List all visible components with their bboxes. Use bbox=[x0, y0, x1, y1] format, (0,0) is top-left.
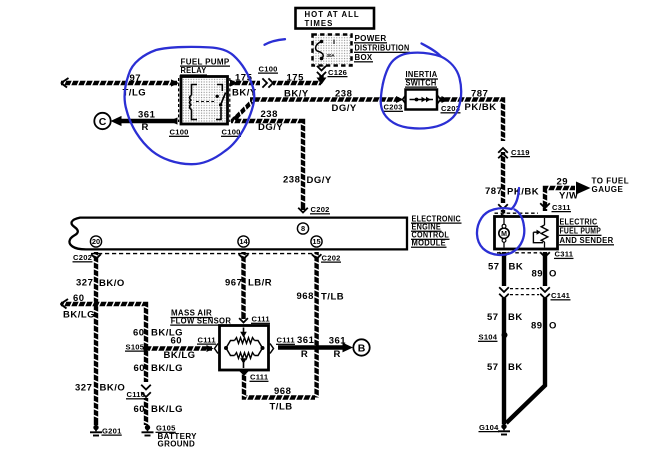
svg-text:89: 89 bbox=[532, 269, 544, 280]
svg-text:968: 968 bbox=[274, 386, 291, 397]
svg-text:DG/Y: DG/Y bbox=[332, 103, 357, 114]
svg-text:327: 327 bbox=[76, 278, 93, 289]
svg-text:PK/BK: PK/BK bbox=[507, 186, 539, 197]
svg-text:BK/LG: BK/LG bbox=[63, 310, 95, 321]
svg-text:968: 968 bbox=[297, 291, 314, 302]
svg-text:T/LB: T/LB bbox=[270, 402, 293, 413]
svg-text:787: 787 bbox=[471, 89, 488, 100]
svg-text:30A: 30A bbox=[327, 53, 336, 58]
svg-text:BK/O: BK/O bbox=[100, 383, 126, 394]
svg-text:C100: C100 bbox=[170, 128, 189, 137]
svg-text:C100: C100 bbox=[222, 128, 241, 137]
svg-text:327: 327 bbox=[75, 383, 92, 394]
svg-text:238: 238 bbox=[283, 175, 300, 186]
svg-text:S105: S105 bbox=[126, 342, 145, 351]
svg-text:FUEL PUMP: FUEL PUMP bbox=[560, 227, 602, 236]
svg-text:361: 361 bbox=[329, 335, 347, 346]
svg-text:C202: C202 bbox=[311, 205, 330, 214]
svg-text:C126: C126 bbox=[328, 68, 347, 77]
svg-text:TIMES: TIMES bbox=[305, 19, 334, 28]
svg-text:G104: G104 bbox=[479, 423, 499, 432]
svg-text:C311: C311 bbox=[555, 250, 574, 259]
svg-text:C: C bbox=[99, 116, 107, 128]
svg-text:BK/LG: BK/LG bbox=[151, 404, 183, 415]
svg-text:R: R bbox=[301, 349, 308, 360]
svg-text:C202: C202 bbox=[322, 253, 341, 262]
svg-text:C111: C111 bbox=[252, 315, 271, 324]
svg-text:G201: G201 bbox=[102, 426, 122, 435]
svg-text:C119: C119 bbox=[511, 148, 530, 157]
svg-text:BK: BK bbox=[508, 312, 523, 323]
svg-text:20: 20 bbox=[92, 237, 100, 246]
svg-text:ELECTRIC: ELECTRIC bbox=[560, 218, 598, 227]
svg-text:C111: C111 bbox=[198, 335, 217, 344]
svg-text:C203: C203 bbox=[384, 103, 403, 112]
svg-text:DISTRIBUTION: DISTRIBUTION bbox=[355, 44, 410, 53]
svg-text:O: O bbox=[549, 269, 557, 280]
svg-text:SWITCH: SWITCH bbox=[406, 78, 437, 87]
svg-text:R: R bbox=[142, 122, 149, 133]
svg-text:S104: S104 bbox=[479, 333, 498, 342]
svg-text:C100: C100 bbox=[259, 64, 278, 73]
svg-text:BK: BK bbox=[509, 262, 524, 273]
svg-text:361: 361 bbox=[297, 335, 315, 346]
svg-text:175: 175 bbox=[287, 73, 305, 84]
svg-text:BK/LG: BK/LG bbox=[164, 350, 196, 361]
svg-text:787: 787 bbox=[485, 186, 502, 197]
svg-text:GROUND: GROUND bbox=[158, 440, 196, 449]
svg-text:AND SENDER: AND SENDER bbox=[560, 236, 614, 245]
svg-text:60: 60 bbox=[171, 336, 183, 347]
svg-text:60: 60 bbox=[134, 404, 146, 415]
svg-text:57: 57 bbox=[487, 312, 499, 323]
svg-text:POWER: POWER bbox=[355, 34, 387, 43]
svg-text:238: 238 bbox=[261, 109, 278, 120]
svg-text:BOX: BOX bbox=[355, 53, 374, 62]
svg-text:C202: C202 bbox=[73, 253, 92, 262]
svg-text:BK/Y: BK/Y bbox=[284, 89, 309, 100]
svg-text:BK/LG: BK/LG bbox=[151, 363, 183, 374]
svg-text:C111: C111 bbox=[277, 336, 296, 345]
svg-text:361: 361 bbox=[138, 110, 156, 121]
svg-text:60: 60 bbox=[134, 363, 146, 374]
svg-text:GAUGE: GAUGE bbox=[592, 185, 624, 194]
svg-text:RELAY: RELAY bbox=[181, 66, 207, 75]
svg-text:89: 89 bbox=[531, 321, 543, 332]
svg-text:97: 97 bbox=[130, 73, 142, 84]
svg-text:29: 29 bbox=[557, 177, 569, 188]
svg-text:FLOW SENSOR: FLOW SENSOR bbox=[171, 316, 232, 325]
svg-text:Y/W: Y/W bbox=[559, 191, 578, 202]
svg-text:8: 8 bbox=[301, 224, 305, 233]
svg-text:967: 967 bbox=[225, 278, 242, 289]
svg-text:R: R bbox=[334, 349, 341, 360]
svg-text:HOT AT ALL: HOT AT ALL bbox=[305, 10, 360, 19]
svg-text:LB/R: LB/R bbox=[248, 278, 272, 289]
svg-text:PK/BK: PK/BK bbox=[465, 102, 497, 113]
svg-text:DG/Y: DG/Y bbox=[258, 122, 283, 133]
svg-text:57: 57 bbox=[487, 362, 499, 373]
svg-text:FUEL PUMP: FUEL PUMP bbox=[181, 57, 230, 66]
svg-text:57: 57 bbox=[488, 262, 500, 273]
svg-text:238: 238 bbox=[335, 88, 352, 99]
svg-text:60: 60 bbox=[73, 293, 85, 304]
svg-text:M: M bbox=[501, 231, 507, 238]
svg-text:C111: C111 bbox=[250, 373, 269, 382]
svg-text:B: B bbox=[358, 342, 366, 354]
svg-text:60: 60 bbox=[133, 327, 145, 338]
svg-text:MODULE: MODULE bbox=[412, 238, 447, 247]
svg-text:BK: BK bbox=[508, 362, 523, 373]
svg-text:T/LB: T/LB bbox=[321, 291, 344, 302]
svg-text:C141: C141 bbox=[551, 291, 571, 300]
svg-text:15: 15 bbox=[312, 237, 320, 246]
svg-text:C110: C110 bbox=[127, 390, 146, 399]
svg-text:C311: C311 bbox=[552, 203, 571, 212]
svg-text:14: 14 bbox=[239, 237, 248, 246]
svg-text:O: O bbox=[549, 321, 557, 332]
svg-text:BK/O: BK/O bbox=[99, 278, 125, 289]
svg-text:DG/Y: DG/Y bbox=[307, 175, 332, 186]
